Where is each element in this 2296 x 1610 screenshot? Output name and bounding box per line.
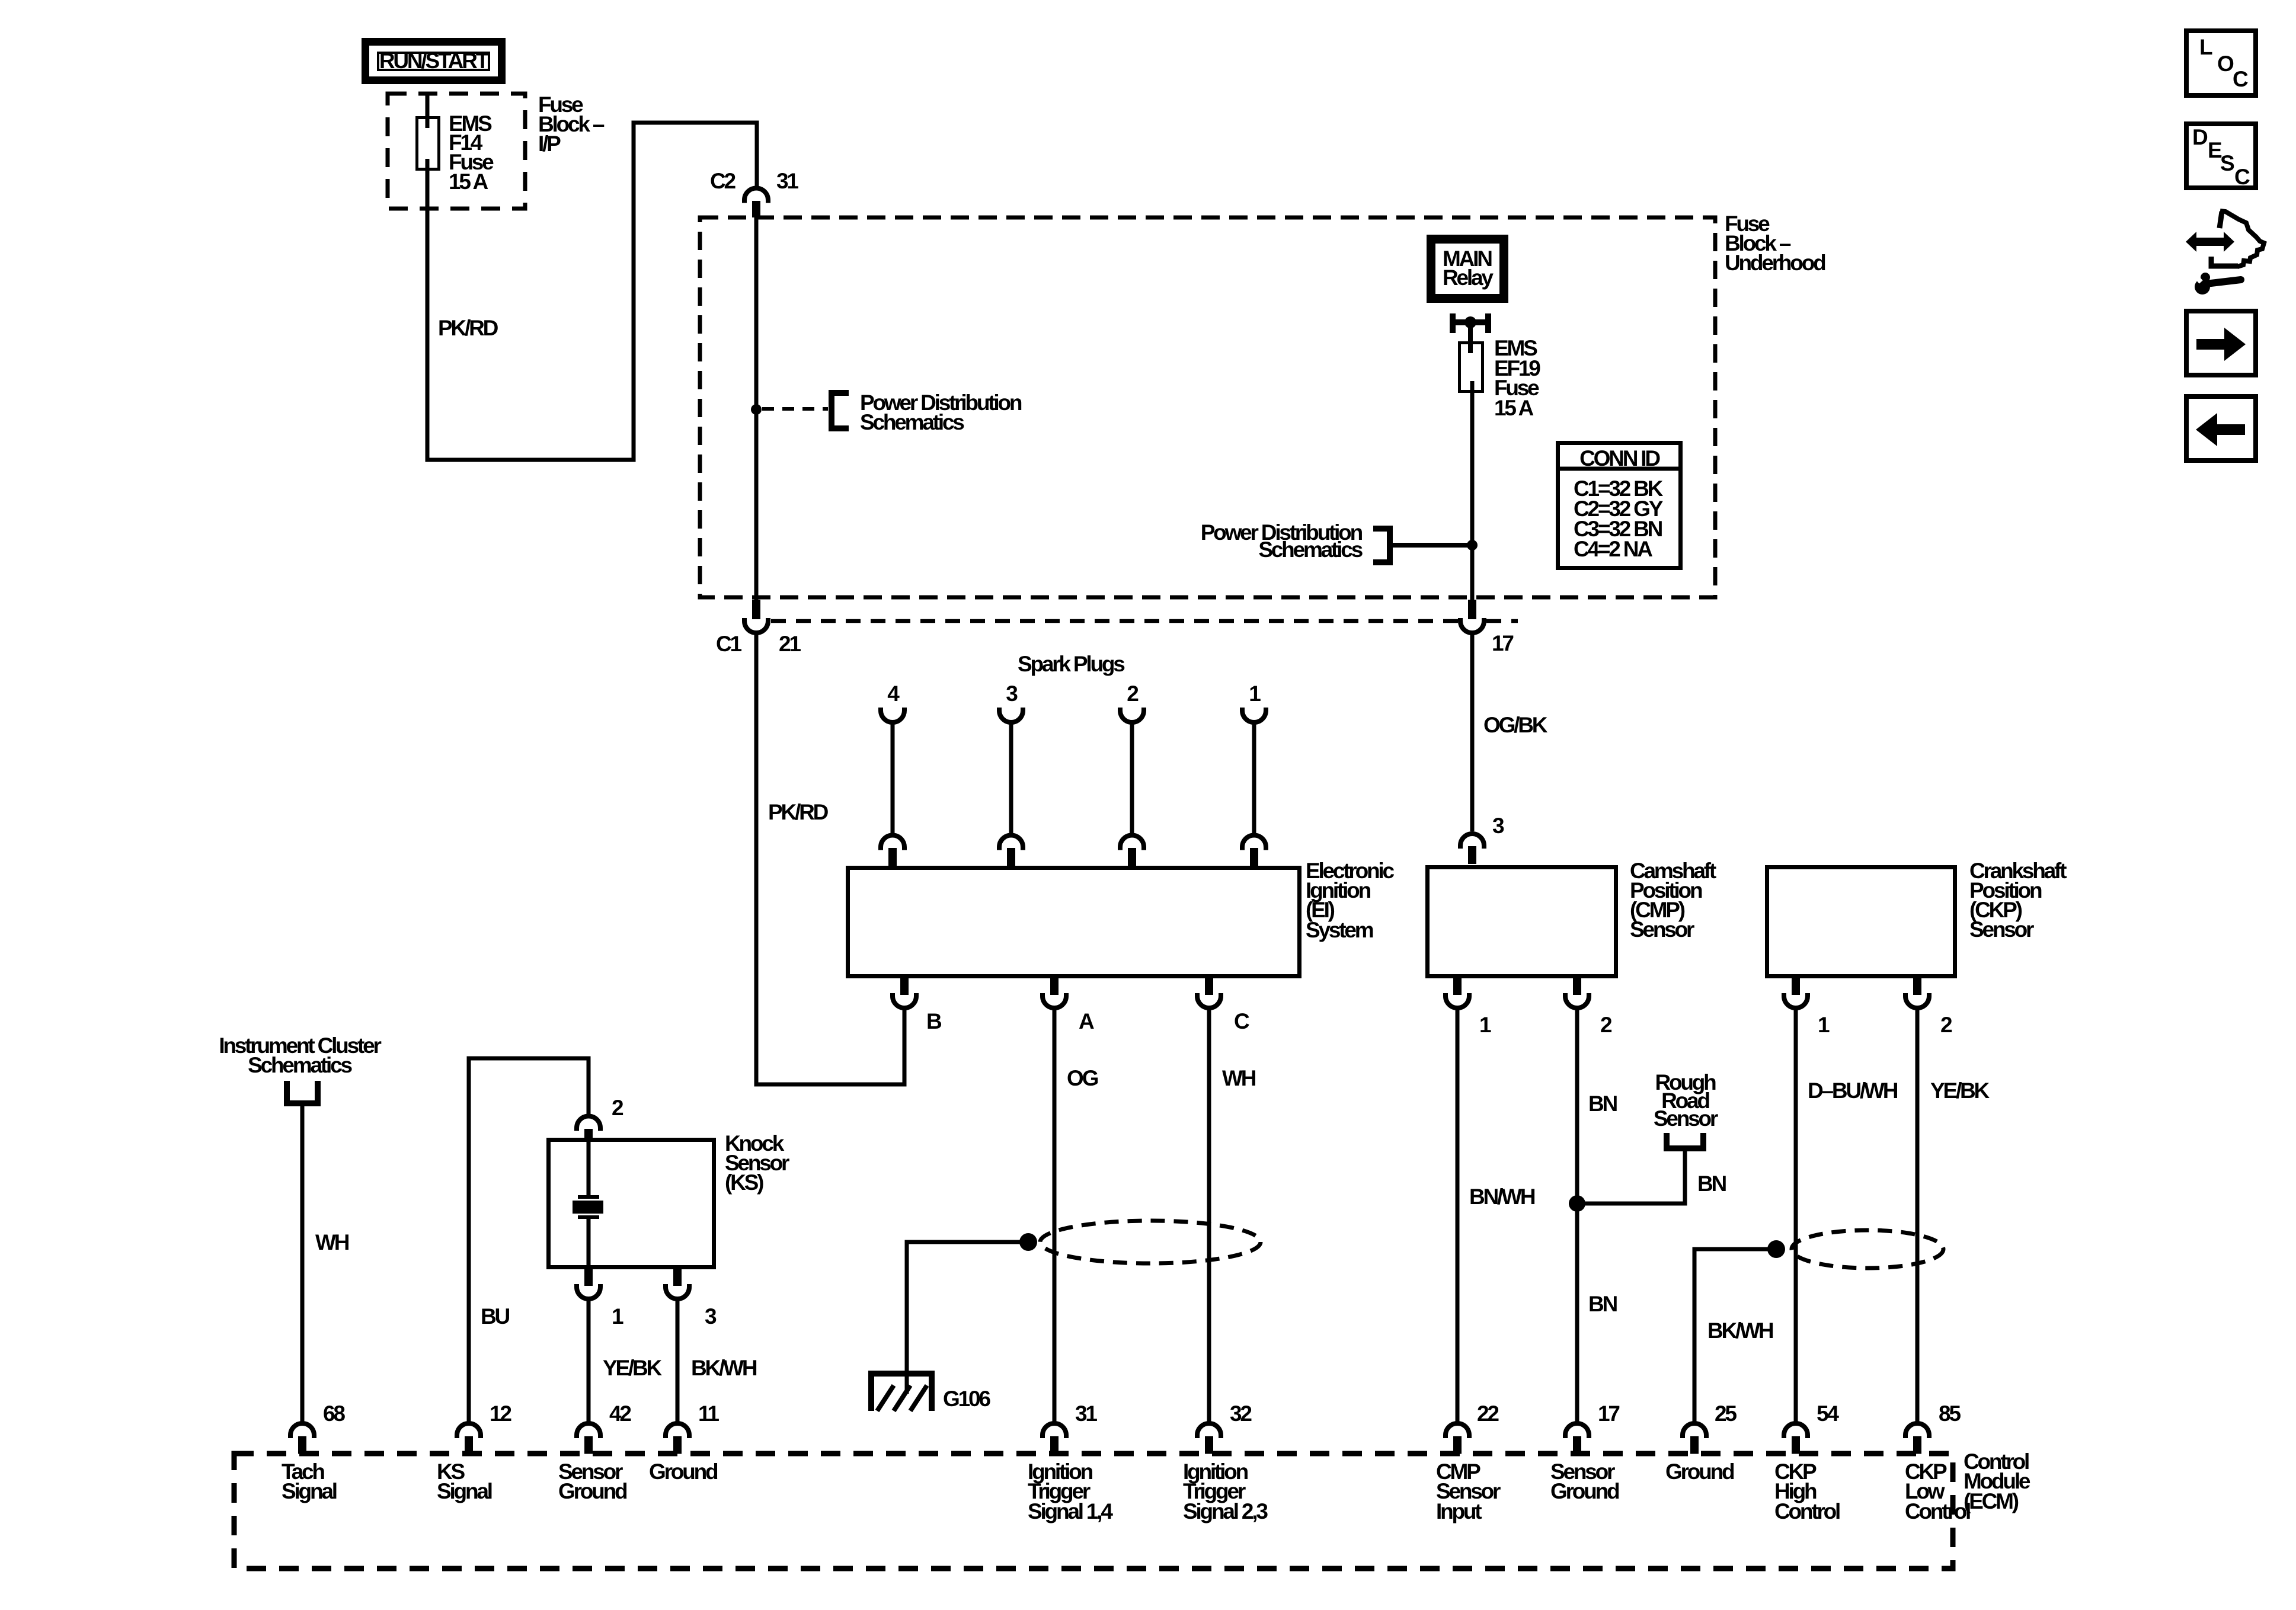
label CKP Low Control bbox=[1905, 1459, 1970, 1523]
label CMP Sensor Input bbox=[1436, 1459, 1501, 1523]
ECM connector 85 (dome) bbox=[1905, 1423, 1929, 1454]
EI pin connector plug 4 (dome) bbox=[881, 836, 904, 866]
drain wire BK/WH to ECM 25 bbox=[1694, 1249, 1776, 1422]
wire BN from CMP pin 2 to ECM 17 bbox=[1575, 1008, 1579, 1422]
ECM connector 11 (dome) bbox=[666, 1423, 689, 1454]
svg-text:31: 31 bbox=[1075, 1401, 1097, 1426]
junction node on PK/RD wire bbox=[751, 404, 762, 415]
svg-text:Control: Control bbox=[1774, 1499, 1840, 1523]
svg-text:Sensor: Sensor bbox=[1969, 917, 2034, 942]
wire spark plug 4 bbox=[891, 722, 895, 833]
wire WH from EI pin C to ECM 32 bbox=[1207, 1008, 1211, 1422]
svg-text:YE/BK: YE/BK bbox=[603, 1356, 663, 1380]
svg-text:1: 1 bbox=[612, 1304, 623, 1329]
fuse block underhood dashed box bbox=[700, 217, 1715, 597]
dashed link wire to power distribution bracket bbox=[762, 407, 828, 411]
bracket ] power distribution (right) bbox=[1373, 529, 1390, 562]
label Control Module (ECM) bbox=[1964, 1449, 2030, 1513]
svg-text:C: C bbox=[2233, 67, 2248, 91]
svg-text:RUN/START: RUN/START bbox=[379, 49, 490, 73]
MAIN Relay box bbox=[1431, 239, 1504, 299]
svg-text:Schematics: Schematics bbox=[860, 410, 964, 434]
connector 17 at fuse block (cup) bbox=[1460, 600, 1484, 633]
wire PK/RD from C1 down to EI pin B bbox=[756, 633, 904, 1084]
CMP pin 2 connector (cup) bbox=[1565, 978, 1589, 1008]
wire WH from instrument cluster to ECM 68 bbox=[300, 1103, 305, 1422]
svg-text:Schematics: Schematics bbox=[1258, 537, 1363, 562]
wire junction to bracket bbox=[1392, 543, 1472, 548]
svg-text:22: 22 bbox=[1477, 1401, 1499, 1426]
spark plug 2 connector (cup) bbox=[1120, 708, 1144, 722]
svg-text:O: O bbox=[2217, 52, 2234, 76]
CONN ID table bbox=[1556, 443, 1683, 568]
bracket [ power distribution bbox=[832, 393, 849, 428]
svg-text:17: 17 bbox=[1492, 631, 1513, 655]
svg-text:BN/WH: BN/WH bbox=[1469, 1185, 1535, 1209]
wire rough road sensor to junction bbox=[1577, 1148, 1685, 1204]
svg-text:21: 21 bbox=[779, 632, 801, 656]
svg-text:OG: OG bbox=[1067, 1066, 1098, 1090]
svg-text:G106: G106 bbox=[943, 1387, 990, 1411]
label Fuse Block - I/P bbox=[538, 92, 605, 156]
svg-text:17: 17 bbox=[1598, 1401, 1619, 1426]
svg-text:OG/BK: OG/BK bbox=[1483, 713, 1548, 737]
svg-text:C1: C1 bbox=[716, 632, 742, 656]
svg-text:Input: Input bbox=[1436, 1499, 1482, 1523]
wire spark plug 1 bbox=[1252, 722, 1256, 833]
spark plug 3 connector (cup) bbox=[999, 708, 1023, 722]
EI pin connector plug 2 (dome) bbox=[1120, 836, 1144, 866]
svg-text:2: 2 bbox=[1600, 1013, 1612, 1037]
wire BU from KS circuit to ECM 12 bbox=[469, 1058, 589, 1422]
label Sensor Ground (42) bbox=[558, 1459, 627, 1503]
svg-text:Signal 1,4: Signal 1,4 bbox=[1028, 1499, 1113, 1523]
label KS Signal bbox=[437, 1459, 492, 1503]
bracket instrument cluster bbox=[284, 1081, 321, 1103]
wire BK/WH from KS pin 3 to ECM 11 bbox=[676, 1299, 680, 1422]
wire spark plug 2 bbox=[1130, 722, 1134, 833]
icon next arrow box bbox=[2186, 311, 2256, 375]
svg-text:L: L bbox=[2199, 35, 2212, 59]
svg-text:S: S bbox=[2220, 151, 2234, 175]
bracket rough road sensor bbox=[1664, 1133, 1706, 1148]
label Power Distribution Schematics (right) bbox=[1201, 520, 1363, 562]
svg-text:YE/BK: YE/BK bbox=[1930, 1078, 1990, 1103]
fuse F14 (EMS F14 Fuse 15 A) bbox=[417, 118, 439, 169]
svg-text:Schematics: Schematics bbox=[248, 1053, 352, 1077]
svg-text:BN: BN bbox=[1697, 1172, 1726, 1196]
icon DESC box bbox=[2186, 124, 2256, 189]
svg-text:Signal: Signal bbox=[282, 1479, 337, 1503]
connector C1 pin 21 (cup) bbox=[744, 600, 768, 633]
svg-text:Underhood: Underhood bbox=[1725, 251, 1825, 275]
junction node BN wires bbox=[1569, 1195, 1585, 1212]
svg-text:Ground: Ground bbox=[1550, 1479, 1619, 1503]
ECM connector 42 (dome) bbox=[577, 1423, 600, 1454]
EI pin A connector (cup) bbox=[1043, 978, 1066, 1008]
spark plug 1 connector (cup) bbox=[1242, 708, 1266, 722]
icon schematic navigation (arrow car wrench) bbox=[2186, 211, 2264, 295]
svg-text:D–BU/WH: D–BU/WH bbox=[1808, 1078, 1898, 1103]
CKP pin 2 connector (cup) bbox=[1905, 978, 1929, 1008]
svg-text:31: 31 bbox=[776, 169, 798, 193]
switch RUN/START box bbox=[366, 42, 502, 81]
connector row dashed line bbox=[771, 619, 1458, 623]
ground G106 symbol bbox=[868, 1371, 935, 1411]
svg-text:32: 32 bbox=[1230, 1401, 1252, 1426]
CMP pin 1 connector (cup) bbox=[1446, 978, 1469, 1008]
label Instrument Cluster Schematics bbox=[219, 1033, 381, 1077]
relay output terminal bracket bbox=[1450, 313, 1491, 333]
EI system box bbox=[848, 868, 1300, 977]
svg-text:CONN ID: CONN ID bbox=[1579, 446, 1660, 470]
svg-text:BN: BN bbox=[1588, 1292, 1617, 1316]
label Crankshaft Position (CKP) Sensor bbox=[1969, 859, 2067, 942]
svg-text:Signal 2,3: Signal 2,3 bbox=[1183, 1499, 1268, 1523]
svg-text:3: 3 bbox=[1006, 681, 1018, 706]
wire D-BU/WH from CKP pin 1 to ECM 54 bbox=[1794, 1008, 1798, 1422]
shield ellipse around EI trigger wires bbox=[1040, 1221, 1261, 1263]
svg-text:(KS): (KS) bbox=[725, 1170, 763, 1195]
label EMS EF19 Fuse 15 A bbox=[1494, 336, 1540, 420]
wire spark plug 3 bbox=[1009, 722, 1013, 833]
spark plug 4 connector (cup) bbox=[881, 708, 904, 722]
svg-text:BK/WH: BK/WH bbox=[1707, 1318, 1773, 1343]
ECM connector 68 (dome) bbox=[290, 1423, 314, 1454]
wire relay to fuse EF19 bbox=[1468, 322, 1473, 353]
svg-text:(ECM): (ECM) bbox=[1964, 1489, 2019, 1513]
ECM connector 17 (dome) bbox=[1565, 1423, 1589, 1454]
svg-text:25: 25 bbox=[1715, 1401, 1737, 1426]
svg-text:BU: BU bbox=[481, 1304, 510, 1329]
svg-text:2: 2 bbox=[1940, 1013, 1952, 1037]
svg-text:42: 42 bbox=[609, 1401, 631, 1426]
ECM connector 12 (dome) bbox=[457, 1423, 481, 1454]
label Power Distribution Schematics (left) bbox=[860, 391, 1022, 434]
svg-text:3: 3 bbox=[1492, 814, 1504, 838]
EI pin connector plug 3 (dome) bbox=[999, 836, 1023, 866]
wire YE/BK from KS pin 1 to ECM 42 bbox=[587, 1299, 591, 1422]
svg-text:85: 85 bbox=[1939, 1401, 1961, 1426]
junction node on EF19 wire bbox=[1467, 540, 1478, 550]
svg-text:Signal: Signal bbox=[437, 1479, 492, 1503]
ECM connector 54 (dome) bbox=[1784, 1423, 1808, 1454]
svg-text:PK/RD: PK/RD bbox=[438, 316, 498, 340]
svg-text:C4=2 NA: C4=2 NA bbox=[1574, 537, 1652, 561]
wire YE/BK from CKP pin 2 to ECM 85 bbox=[1916, 1008, 1920, 1422]
CMP pin 3 connector (dome) bbox=[1460, 834, 1484, 864]
wire BN/WH from CMP pin 1 to ECM 22 bbox=[1456, 1008, 1460, 1422]
label CKP High Control bbox=[1774, 1459, 1840, 1523]
CKP sensor box bbox=[1767, 868, 1955, 977]
wire OG from EI pin A to ECM 31 bbox=[1053, 1008, 1057, 1422]
svg-text:I/P: I/P bbox=[538, 132, 561, 156]
svg-text:Ground: Ground bbox=[1665, 1459, 1734, 1484]
label Rough Road Sensor bbox=[1654, 1070, 1718, 1131]
label Ignition Trigger Signal 2,3 bbox=[1183, 1459, 1268, 1523]
svg-text:2: 2 bbox=[1127, 681, 1139, 706]
CKP pin 1 connector (cup) bbox=[1784, 978, 1808, 1008]
svg-text:A: A bbox=[1079, 1009, 1094, 1033]
KS pin 2 connector (dome) bbox=[577, 1116, 600, 1139]
svg-text:12: 12 bbox=[490, 1401, 511, 1426]
svg-text:Control: Control bbox=[1905, 1499, 1970, 1523]
svg-text:C: C bbox=[1234, 1009, 1249, 1033]
ECM dashed box bbox=[234, 1454, 1953, 1569]
EI pin connector plug 1 (dome) bbox=[1242, 836, 1266, 866]
shield ellipse around CKP wires bbox=[1792, 1230, 1943, 1268]
svg-text:Sensor: Sensor bbox=[1630, 917, 1694, 942]
junction node CKP shield drain bbox=[1767, 1240, 1785, 1258]
svg-text:WH: WH bbox=[1222, 1066, 1256, 1090]
svg-text:BN: BN bbox=[1588, 1092, 1617, 1116]
label Camshaft Position (CMP) Sensor bbox=[1630, 859, 1716, 942]
KS pin 3 connector (cup) bbox=[666, 1269, 689, 1299]
ECM connector 25 (dome) bbox=[1683, 1423, 1706, 1454]
svg-text:68: 68 bbox=[323, 1401, 345, 1426]
label Tach Signal bbox=[282, 1459, 337, 1503]
svg-text:1: 1 bbox=[1818, 1013, 1830, 1037]
ECM connector 22 (dome) bbox=[1446, 1423, 1469, 1454]
svg-text:C2: C2 bbox=[710, 169, 736, 193]
svg-text:15 A: 15 A bbox=[449, 169, 488, 194]
wire PK/RD from fuse down and across to C2 bbox=[427, 123, 757, 460]
label Knock Sensor (KS) bbox=[725, 1131, 789, 1195]
wire fuse EF19 down to connector 17 bbox=[1470, 381, 1475, 600]
svg-text:3: 3 bbox=[705, 1304, 717, 1329]
svg-text:1: 1 bbox=[1479, 1013, 1491, 1037]
label Electronic Ignition (EI) System bbox=[1306, 859, 1395, 942]
svg-text:PK/RD: PK/RD bbox=[768, 800, 829, 824]
svg-text:BK/WH: BK/WH bbox=[691, 1356, 757, 1380]
KS pin 1 connector (cup) bbox=[577, 1269, 600, 1299]
knock sensor KS box bbox=[549, 1140, 714, 1267]
EI pin C connector (cup) bbox=[1197, 978, 1221, 1008]
svg-text:Spark Plugs: Spark Plugs bbox=[1018, 652, 1125, 676]
icon back arrow box bbox=[2186, 396, 2256, 460]
svg-text:1: 1 bbox=[1249, 681, 1261, 706]
wire from fuse block top to fuse F14 bbox=[426, 94, 430, 128]
svg-text:B: B bbox=[926, 1009, 942, 1033]
CMP sensor box bbox=[1428, 868, 1616, 977]
connector C2 pin 31 (dome) bbox=[744, 188, 768, 218]
svg-text:C: C bbox=[2234, 165, 2250, 189]
ECM connector 31 (dome) bbox=[1043, 1423, 1066, 1454]
junction node shield drain bbox=[1019, 1233, 1037, 1251]
svg-text:System: System bbox=[1306, 918, 1373, 942]
label EMS F14 Fuse 15 A bbox=[449, 111, 494, 194]
svg-text:Sensor: Sensor bbox=[1654, 1106, 1718, 1131]
svg-text:Ground: Ground bbox=[558, 1479, 627, 1503]
svg-text:54: 54 bbox=[1817, 1401, 1839, 1426]
wire OG/BK from 17 to CMP pin 3 bbox=[1470, 633, 1475, 831]
label Ignition Trigger Signal 1,4 bbox=[1028, 1459, 1113, 1523]
fuse EF19 (EMS EF19 Fuse 15 A) bbox=[1460, 343, 1483, 392]
svg-text:11: 11 bbox=[698, 1401, 719, 1426]
svg-text:15 A: 15 A bbox=[1494, 396, 1533, 420]
svg-text:2: 2 bbox=[612, 1096, 623, 1120]
ECM connector 32 (dome) bbox=[1197, 1423, 1221, 1454]
EI pin B connector (cup) bbox=[893, 978, 916, 1008]
svg-text:D: D bbox=[2192, 125, 2208, 149]
KS piezo element bbox=[573, 1138, 603, 1269]
label Fuse Block - Underhood bbox=[1725, 212, 1825, 275]
fuse block I/P dashed box bbox=[388, 94, 525, 209]
drain wire to ground G106 bbox=[907, 1242, 1028, 1394]
svg-text:WH: WH bbox=[315, 1230, 349, 1254]
label Sensor Ground (17) bbox=[1550, 1459, 1619, 1503]
svg-text:Relay: Relay bbox=[1443, 265, 1494, 290]
icon LOC box bbox=[2186, 31, 2256, 95]
svg-text:Ground: Ground bbox=[649, 1459, 718, 1484]
wire from C2 down to C1 bbox=[754, 217, 759, 600]
